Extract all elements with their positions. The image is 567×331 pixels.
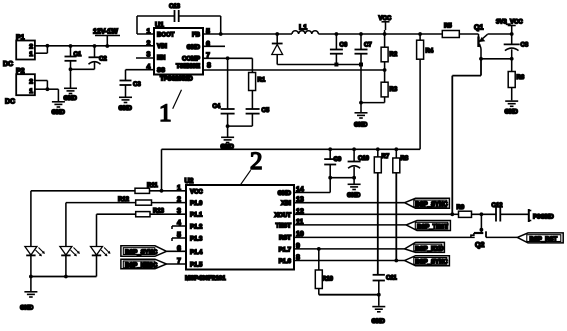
resistor R2 <box>381 34 398 82</box>
capacitor C4 <box>213 104 235 126</box>
wire Q2 drain <box>480 214 482 233</box>
svg-text:R9: R9 <box>457 205 465 211</box>
power port 3V3_VCC <box>496 20 523 35</box>
wire LED common rail <box>31 276 97 278</box>
node 12V tick <box>105 44 109 48</box>
LED D3 <box>91 247 111 277</box>
capacitor C5 <box>246 108 270 126</box>
svg-text:GND: GND <box>278 191 292 197</box>
capacitor C11 <box>373 275 398 306</box>
wire VCC rail <box>318 33 442 35</box>
svg-text:2: 2 <box>250 148 263 175</box>
svg-text:C5: C5 <box>262 108 270 114</box>
node rail R8 <box>394 147 398 151</box>
port BSP_RST <box>517 233 563 243</box>
port BSP_TEST <box>406 221 450 231</box>
svg-text:BSP_RST: BSP_RST <box>530 237 558 243</box>
wire C4-C5 bottoms <box>228 125 253 127</box>
svg-text:12V-1W: 12V-1W <box>93 29 118 36</box>
wire SS pin4 to C3 <box>126 70 155 80</box>
svg-text:GND: GND <box>52 110 66 116</box>
node C10 bottom <box>352 176 356 180</box>
capacitor C8 (polarized) <box>504 34 529 59</box>
svg-text:BSP_TEST: BSP_TEST <box>417 224 448 230</box>
node C7 top <box>359 32 363 36</box>
node FB divider <box>383 68 387 72</box>
svg-text:Q1: Q1 <box>474 25 483 32</box>
svg-text:C1: C1 <box>74 52 82 58</box>
wire pin12 XOUT row <box>294 213 452 215</box>
svg-text:R1: R1 <box>258 78 266 84</box>
wire gnd drop x361 <box>360 65 362 103</box>
wire BOOT loop right to pin5 node <box>179 16 221 34</box>
wire pin1 row <box>150 190 187 192</box>
svg-text:FB: FB <box>192 33 201 39</box>
svg-text:1: 1 <box>159 100 172 127</box>
wire rail to ground <box>30 277 32 292</box>
wire LED2 branch <box>66 203 136 246</box>
node LED2 rail <box>64 275 68 279</box>
capacitor C2 (polarized) <box>89 46 108 69</box>
svg-text:BOOT: BOOT <box>157 33 175 39</box>
capacitor C1 <box>65 46 82 69</box>
transistor Q1 (PNP) <box>474 25 512 59</box>
ground (LEDs) <box>20 292 37 312</box>
node C2 top <box>93 44 97 48</box>
transistor Q2 <box>471 231 517 249</box>
wire collector to C8 bottom <box>481 58 512 60</box>
port BSP_SYNC (right top) <box>405 198 450 208</box>
wire pin13 XIN row <box>294 202 405 204</box>
svg-text:C13: C13 <box>169 4 181 10</box>
svg-text:R2: R2 <box>390 52 398 58</box>
svg-text:TSENSE: TSENSE <box>176 64 200 70</box>
svg-text:C6: C6 <box>340 43 348 49</box>
svg-text:RST: RST <box>279 236 291 242</box>
capacitor C3 <box>120 81 142 97</box>
connector P3GND probe <box>529 209 555 222</box>
svg-text:C3: C3 <box>133 82 141 88</box>
svg-text:1: 1 <box>29 51 33 58</box>
resistor R6 <box>508 59 525 101</box>
svg-text:XOUT: XOUT <box>274 213 291 219</box>
svg-text:BSP_NESC: BSP_NESC <box>125 263 158 269</box>
node diode top <box>275 32 279 36</box>
svg-text:BSP_SYNC: BSP_SYNC <box>415 202 448 208</box>
wire pin6 stub <box>203 45 225 47</box>
svg-text:TPS62051D: TPS62051D <box>160 77 193 83</box>
wire EN pin3 <box>136 57 154 59</box>
svg-text:P1.7: P1.7 <box>279 247 292 253</box>
svg-text:3V3_VCC: 3V3_VCC <box>496 20 523 26</box>
diode D (freewheel) <box>272 34 283 65</box>
svg-text:P1.4: P1.4 <box>190 250 203 256</box>
wire pin11 TEST row <box>294 224 406 226</box>
node P1 junction <box>46 44 50 48</box>
node C9 bottom <box>328 176 332 180</box>
capacitor C7 <box>355 34 373 65</box>
resistor R10 <box>315 249 379 295</box>
wire BOOT loop left <box>137 16 174 34</box>
ground (R6) <box>505 101 519 115</box>
svg-text:1: 1 <box>29 88 33 95</box>
port BSP_SYNC (right bottom) <box>405 256 450 266</box>
resistor R4 <box>417 34 434 149</box>
ground (C1/C2) <box>64 88 78 102</box>
wire VCC distribution rail <box>162 149 421 191</box>
svg-text:BSP_RXD: BSP_RXD <box>415 246 444 252</box>
svg-text:GND: GND <box>64 96 78 102</box>
node R10 pin9 <box>317 247 321 251</box>
port BSP_SYNC (left) <box>121 246 186 256</box>
node C1 top <box>69 44 73 48</box>
svg-text:R10: R10 <box>322 277 334 283</box>
node 3V3 <box>510 32 514 36</box>
svg-text:R3: R3 <box>390 87 398 93</box>
node VCC/R2 <box>383 32 387 36</box>
node R9/C12/Q2 <box>480 212 484 216</box>
connector P1 <box>16 35 47 60</box>
node C6 top <box>335 32 339 36</box>
node R8 pin8 <box>394 259 398 263</box>
power port VCC <box>379 16 392 34</box>
svg-text:R8: R8 <box>401 156 409 162</box>
svg-text:BSP_SYNC: BSP_SYNC <box>415 260 448 266</box>
LED D2 <box>60 247 80 277</box>
svg-text:Q2: Q2 <box>475 242 484 249</box>
pin 4 stub <box>172 226 186 229</box>
svg-text:P1.6: P1.6 <box>279 259 292 265</box>
node C8 bottom <box>510 57 514 61</box>
ground (C11) <box>372 307 386 325</box>
wire pin2 row <box>152 202 187 204</box>
port BSP_RXD <box>405 242 445 252</box>
label 12V-1W <box>93 29 120 47</box>
wire gnd bus upper <box>277 64 361 66</box>
resistor R5 <box>442 24 478 38</box>
node Q2 drain <box>480 228 484 232</box>
wire pin14 GND row <box>294 178 330 193</box>
node R9 left <box>450 212 454 216</box>
resistor R8 <box>393 149 409 260</box>
LED D1 <box>25 247 45 277</box>
svg-text:GND: GND <box>187 45 201 51</box>
microcontroller U2 MSP430F2101 <box>185 178 295 282</box>
node C1 bottom <box>69 67 73 71</box>
wire pin10 RST row <box>294 236 475 238</box>
svg-text:C7: C7 <box>364 43 372 49</box>
resistor R1 <box>249 73 266 109</box>
wire pin7 COMP <box>203 58 252 72</box>
svg-text:VCC: VCC <box>190 189 203 195</box>
svg-text:C8: C8 <box>521 43 529 49</box>
node P2 junction <box>46 87 50 91</box>
svg-text:R5: R5 <box>444 24 452 30</box>
svg-text:P1.5: P1.5 <box>190 263 203 269</box>
node rail C10 <box>352 147 356 151</box>
svg-text:MSP430F2101: MSP430F2101 <box>185 275 226 282</box>
op-amp U1 regulator TPS62051D <box>154 22 203 83</box>
svg-text:SS: SS <box>157 68 165 74</box>
ground (C10) <box>347 184 361 199</box>
svg-text:DC: DC <box>5 99 15 106</box>
svg-text:R4: R4 <box>426 49 434 55</box>
svg-text:GND: GND <box>347 193 361 199</box>
svg-text:8: 8 <box>207 63 211 70</box>
node rail C9 <box>328 147 332 151</box>
annotation numeral 1 <box>159 90 182 127</box>
svg-text:EN: EN <box>157 56 165 62</box>
capacitor C6 <box>330 34 348 65</box>
svg-text:P1.1: P1.1 <box>190 213 203 219</box>
ground (P2) <box>52 102 66 116</box>
pin 5 stub <box>172 238 186 241</box>
capacitor C10 (polarized) <box>348 149 370 183</box>
resistor R13 <box>136 209 165 217</box>
svg-text:BSP_SYNC: BSP_SYNC <box>125 250 158 256</box>
wire C1-C2 bottoms <box>71 68 95 70</box>
resistor R12 <box>118 197 152 205</box>
wire pin9 row <box>294 248 405 250</box>
wire P2 pins to ground <box>47 81 58 102</box>
svg-text:C4: C4 <box>213 104 221 110</box>
svg-text:P1.2: P1.2 <box>190 225 203 231</box>
node LED1 rail <box>29 275 33 279</box>
svg-text:DC: DC <box>3 61 13 68</box>
svg-text:XIN: XIN <box>281 201 291 207</box>
resistor R3 <box>361 82 398 102</box>
node C11/R10 <box>377 293 381 297</box>
svg-text:GND: GND <box>505 110 519 116</box>
port BSP_NESC (left) <box>121 259 186 269</box>
inductor L1 <box>292 25 318 35</box>
node U2 VCC junction <box>160 189 164 193</box>
ground (C4/C5) <box>221 137 235 150</box>
resistor R9 <box>452 205 495 217</box>
svg-text:U2: U2 <box>185 178 194 185</box>
svg-text:VIN: VIN <box>157 44 167 50</box>
svg-text:2: 2 <box>29 79 33 86</box>
node R4 top <box>418 32 422 36</box>
svg-text:GND: GND <box>20 306 34 312</box>
wire Q1 collector down-left-down <box>452 59 481 215</box>
svg-text:P1.3: P1.3 <box>190 237 203 243</box>
svg-text:C12: C12 <box>492 203 504 209</box>
resistor R11 <box>135 183 158 193</box>
node C4 bottom <box>226 124 230 128</box>
svg-text:2: 2 <box>29 43 33 50</box>
annotation numeral 2 <box>240 148 262 185</box>
wire pin8 row <box>294 260 405 262</box>
svg-text:P1.0: P1.0 <box>190 201 203 207</box>
wire LED1 branch <box>31 191 135 246</box>
svg-text:R6: R6 <box>517 75 525 81</box>
wire pin5 SW rail <box>203 33 292 35</box>
resistor R7 <box>374 149 390 274</box>
svg-text:COMP: COMP <box>182 57 200 63</box>
svg-text:C2: C2 <box>99 57 107 63</box>
svg-text:TEST: TEST <box>276 223 292 229</box>
node C13/pin5 <box>219 32 223 36</box>
capacitor C12 <box>492 203 529 222</box>
connector P2 <box>16 68 47 95</box>
svg-text:C11: C11 <box>386 276 397 282</box>
wire C4 drop <box>227 58 229 108</box>
wire pin8 FB long <box>203 69 385 71</box>
ground (C3) <box>119 97 133 112</box>
node C6 bottom <box>334 63 338 67</box>
capacitor C9 <box>324 149 342 177</box>
node COMP/C4 <box>226 56 230 60</box>
svg-text:GND: GND <box>354 123 368 129</box>
wire to ground C4 <box>227 126 229 136</box>
svg-text:P3GND: P3GND <box>533 215 554 221</box>
wire C9-C10 bottoms <box>330 177 354 179</box>
node Q1 collector <box>479 57 483 61</box>
ground (output) <box>354 113 368 129</box>
wire pin3 row <box>150 213 186 215</box>
node R3 bottom junction <box>359 101 363 105</box>
wire main 12V rail to U1 VIN <box>35 45 154 47</box>
svg-text:R13: R13 <box>153 209 165 215</box>
svg-text:R7: R7 <box>382 154 390 160</box>
capacitor C13 <box>169 4 181 22</box>
node rail R7 <box>376 147 380 151</box>
wire to ground <box>360 103 362 112</box>
svg-text:2: 2 <box>147 40 151 47</box>
wire LED3 branch <box>97 214 136 246</box>
wire C1 node to ground <box>70 69 72 87</box>
svg-text:GND: GND <box>119 106 133 112</box>
node C7 bottom <box>359 63 363 67</box>
svg-text:GND: GND <box>372 319 386 325</box>
